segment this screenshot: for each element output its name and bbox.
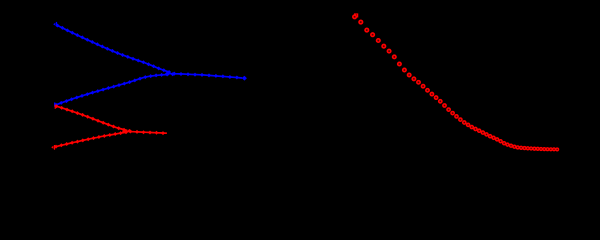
start cap of blue upper branch <box>53 22 57 27</box>
red lower branch of left bifurcation curve <box>54 130 128 148</box>
start cap of red upper branch <box>55 105 56 109</box>
blue lower branch of left bifurcation curve <box>54 72 175 107</box>
red upper branch of left bifurcation curve <box>55 104 132 133</box>
end marker of blue merged line <box>242 76 247 81</box>
start cap of right decay curve <box>354 14 358 18</box>
start cap of blue lower branch <box>54 103 55 107</box>
red merged line of left bifurcation curve <box>122 129 167 135</box>
start cap of red lower branch <box>51 145 55 150</box>
blue upper branch of left bifurcation curve <box>56 24 177 76</box>
red circle markers of right decay curve <box>353 15 559 151</box>
blue merged line of left bifurcation curve <box>165 72 246 81</box>
